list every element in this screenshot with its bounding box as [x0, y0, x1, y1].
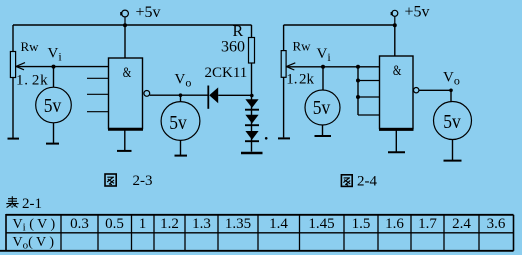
wire U2 input stub 3 — [358, 96, 380, 98]
wire U1 input stub 2 — [87, 77, 109, 79]
ground right branch — [278, 137, 290, 139]
svg-text:5v: 5v — [443, 111, 461, 133]
ground voltmeter P2 — [175, 155, 188, 157]
ground voltmeter P4 — [444, 160, 462, 162]
wire U2 bottom pin — [395, 130, 397, 152]
label figure 2-3 — [105, 173, 153, 189]
wire left branch upper — [12, 25, 14, 52]
resistor R 360 body — [249, 38, 255, 64]
svg-text:1: 1 — [139, 216, 147, 232]
stray dot mark — [265, 137, 268, 140]
power terminal +5v right — [391, 10, 398, 25]
wire rail to gate top pin right — [394, 25, 396, 56]
wire left branch lower — [12, 78, 14, 139]
wire right branch upper — [283, 25, 285, 51]
table row 1 values — [70, 216, 506, 232]
node tie junction dot 2 — [356, 79, 360, 83]
node tie junction dot top — [356, 65, 360, 69]
wire right branch lower — [283, 77, 285, 137]
wiper arrow RW1 and wire to gate input 1 — [16, 63, 109, 70]
svg-text:1.4: 1.4 — [269, 216, 288, 232]
svg-text:Vo: Vo — [443, 70, 460, 88]
wire Vo right to voltmeter — [450, 90, 452, 101]
voltmeter P4 5v (Vo right) — [434, 102, 472, 140]
nand gate U1 body — [108, 58, 143, 129]
svg-text:Rw: Rw — [21, 39, 40, 54]
svg-text:2-1: 2-1 — [22, 196, 42, 212]
wire voltmeter P3 to ground — [322, 125, 324, 136]
wire Vi right to voltmeter — [322, 67, 324, 90]
svg-text:&: & — [123, 65, 132, 81]
LED D4 — [245, 131, 259, 141]
ground voltmeter P3 — [315, 135, 332, 137]
potentiometer RW1 body — [10, 52, 15, 78]
svg-text:Rw: Rw — [293, 39, 312, 54]
wire Vi to voltmeter — [53, 67, 55, 88]
LED D3 — [245, 115, 259, 125]
svg-text:1.3: 1.3 — [192, 216, 211, 232]
wire U1 input stub 4 — [87, 111, 109, 113]
LED D2 — [245, 99, 259, 110]
svg-text:1.35: 1.35 — [225, 216, 251, 232]
wire U2 input stub 2 — [358, 80, 380, 82]
U2 output inversion bubble — [414, 88, 419, 93]
ground LED string — [241, 152, 263, 154]
wire input tie vertical — [357, 67, 359, 115]
node Vo junction dot — [179, 93, 183, 97]
nand gate U2 body — [379, 56, 414, 130]
label table title 表 2-1 — [6, 196, 42, 212]
ground U2 — [388, 151, 405, 153]
svg-text:1.2k: 1.2k — [286, 72, 314, 88]
wire diode to LED string — [218, 94, 252, 96]
svg-text:Vi: Vi — [317, 46, 332, 64]
svg-text:2.4: 2.4 — [452, 216, 471, 232]
svg-text:1.7: 1.7 — [418, 216, 437, 232]
ground U1 — [117, 150, 132, 152]
voltmeter P2 5v (Vo left) — [161, 102, 200, 141]
node junction rail left — [123, 23, 127, 27]
svg-text:+5v: +5v — [405, 4, 430, 21]
svg-text:0.3: 0.3 — [70, 216, 89, 232]
wire top rail right circuit — [284, 24, 395, 26]
svg-text:R: R — [233, 23, 244, 40]
svg-text:360: 360 — [221, 39, 245, 56]
wire Vo to voltmeter P2 — [180, 95, 182, 101]
wire U1 bottom pin — [124, 129, 126, 150]
diode D1 2CK11 — [208, 86, 218, 109]
wire voltmeter P4 to ground — [452, 140, 454, 161]
wire top rail left circuit — [13, 24, 252, 26]
svg-text:Vi: Vi — [48, 46, 63, 64]
svg-text:2CK11: 2CK11 — [205, 65, 248, 81]
wire voltmeter P1 to ground — [53, 123, 55, 143]
svg-text:2-3: 2-3 — [133, 173, 153, 189]
label figure 2-4 — [341, 174, 377, 190]
svg-text:5v: 5v — [44, 95, 62, 117]
node Vi junction dot — [52, 65, 56, 69]
wire U2 output to Vo — [419, 89, 451, 91]
svg-text:1.2: 1.2 — [160, 216, 179, 232]
ground voltmeter P1 — [46, 143, 59, 145]
node tie junction dot 3 — [356, 95, 360, 99]
svg-text:+5v: +5v — [136, 4, 161, 21]
wire resistor to LED string — [251, 63, 253, 152]
svg-text:2-4: 2-4 — [357, 174, 377, 190]
wire voltmeter P2 to ground — [180, 140, 182, 155]
svg-text:Vo: Vo — [175, 72, 192, 90]
node Vi right junction dot — [321, 65, 325, 69]
svg-text:Vo( V ): Vo( V ) — [13, 235, 55, 252]
ground left branch — [8, 138, 20, 140]
svg-text:1.45: 1.45 — [308, 216, 334, 232]
node junction rail right — [393, 23, 397, 27]
node Vo right junction dot — [449, 89, 453, 93]
svg-text:0.5: 0.5 — [105, 216, 124, 232]
svg-text:3.6: 3.6 — [487, 216, 506, 232]
wire U1 input stub 3 — [87, 93, 109, 95]
svg-text:1.6: 1.6 — [385, 216, 404, 232]
svg-text:5v: 5v — [313, 97, 331, 119]
table grid — [0, 214, 514, 251]
svg-text:5v: 5v — [169, 112, 187, 134]
voltmeter P3 5v (Vi right) — [305, 90, 340, 125]
svg-text:1.2k: 1.2k — [16, 73, 48, 89]
power terminal +5v left — [120, 10, 128, 25]
svg-text:Vi ( V ): Vi ( V ) — [13, 217, 56, 234]
node LED junction dot — [250, 94, 254, 98]
wire rail corner down to resistor R — [251, 25, 253, 38]
svg-text:1.5: 1.5 — [352, 216, 371, 232]
wire rail to gate top pin — [124, 25, 126, 58]
voltmeter P1 5v (Vi left) — [36, 87, 72, 123]
wiper arrow RW2 and wire to gate — [286, 63, 379, 70]
svg-text:&: & — [393, 63, 402, 79]
wire U1 output to diode — [150, 94, 208, 96]
wire U2 input stub 4 — [358, 114, 380, 116]
potentiometer RW2 body — [281, 51, 286, 78]
U1 output inversion bubble — [144, 91, 150, 97]
